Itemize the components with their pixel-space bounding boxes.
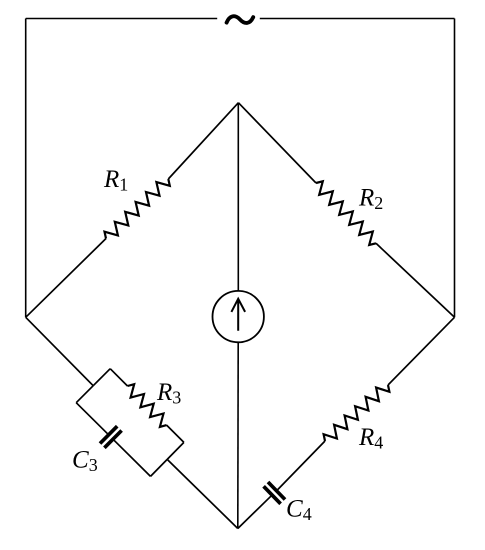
wire: R3 to right corner	[167, 425, 184, 442]
wire: left corner to C3	[76, 403, 107, 434]
wire: C4 to bottom node	[238, 496, 271, 528]
wire: left node to R1	[26, 239, 106, 318]
wire: right node to R4	[388, 317, 455, 385]
wire: top node down to detector	[237, 103, 239, 291]
capacitor C4	[264, 482, 285, 504]
wire: block entry stub to left corner	[76, 386, 93, 403]
capacitor C3	[100, 426, 122, 448]
wire: top-left horizontal	[26, 18, 218, 20]
wire: left node to R3C3 block	[26, 317, 94, 385]
detector arrow	[231, 299, 245, 331]
wire: R2 to right node	[376, 243, 455, 317]
wire: block entry stub to top corner	[93, 369, 110, 386]
svg-text:R4: R4	[358, 424, 383, 453]
wire: top corner to R3	[110, 369, 127, 386]
resistor R1	[105, 179, 170, 239]
wire: block exit to bottom node	[167, 459, 238, 528]
wire: top node to R2	[238, 103, 316, 183]
wire: R4 to C4	[278, 441, 325, 490]
resistor R2	[316, 181, 376, 245]
detector / current source symbol (circle)	[213, 291, 264, 342]
wire: right corner to block exit stub	[167, 442, 184, 459]
wire: left vertical (source to left bridge node)	[25, 19, 27, 318]
wire: bottom corner to block exit stub	[151, 459, 168, 476]
wire: C3 to bottom corner	[114, 440, 150, 476]
wire: right vertical (source to right bridge node)	[454, 19, 456, 318]
svg-text:R2: R2	[358, 185, 383, 214]
wire: R1 to top node	[168, 103, 238, 179]
resistor R4	[324, 385, 390, 441]
wire: detector down to bottom node	[237, 342, 239, 528]
svg-text:R3: R3	[156, 379, 181, 408]
svg-text:R1: R1	[103, 166, 128, 195]
svg-text:C4: C4	[286, 496, 312, 525]
wire: top-right horizontal	[260, 18, 455, 20]
svg-text:C3: C3	[72, 447, 98, 476]
resistor R3	[128, 384, 167, 427]
AC source V1 (tilde symbol)	[227, 16, 254, 23]
